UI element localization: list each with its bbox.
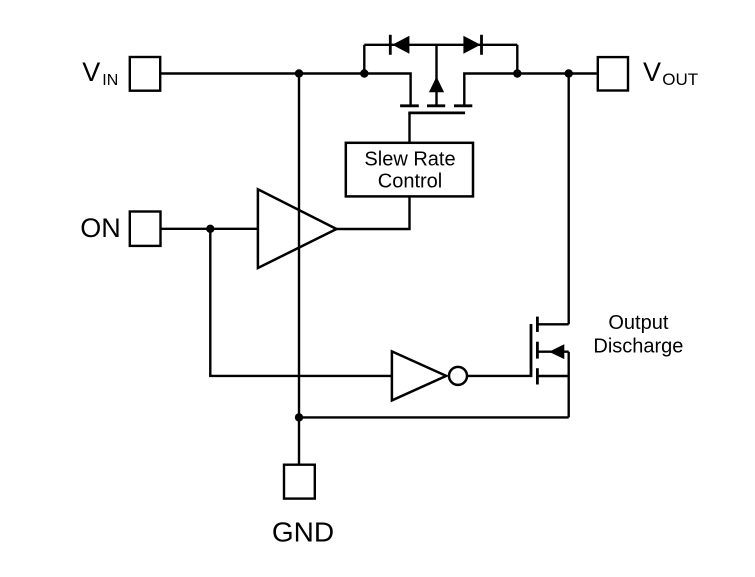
diode D1 (body diode, cathode to VIN side) bbox=[390, 35, 409, 55]
svg-text:GND: GND bbox=[272, 517, 334, 548]
diode D2 (body diode, cathode to VOUT side) bbox=[463, 35, 481, 55]
transistor Q2 output discharge NMOS bbox=[531, 317, 569, 385]
pin box ON bbox=[130, 212, 161, 246]
inverter bubble bbox=[449, 367, 467, 385]
pin box VOUT bbox=[598, 57, 628, 90]
node: junction dot VOUT rail / discharge drain bbox=[565, 69, 573, 77]
wire: Q2 source/body down to bottom rail bbox=[568, 352, 570, 418]
svg-text:Control: Control bbox=[378, 171, 442, 193]
wire: right riser from body-diode rail bbox=[516, 45, 518, 74]
wire: pass FET right plate to VOUT box bbox=[464, 74, 596, 105]
wire: bottom rail bbox=[299, 416, 569, 418]
wire: driver output to slew-rate box bottom bbox=[337, 196, 410, 229]
wire: ON branch down then right to inverter input bbox=[210, 229, 392, 376]
op-amp U1 driver triangle bbox=[258, 189, 337, 268]
op-amp U2 inverter triangle bbox=[392, 351, 446, 400]
substrate arrow of Q1 (points up) bbox=[429, 77, 444, 93]
wire: ON box to driver input bbox=[161, 228, 258, 230]
wire: inverter output to Q2 gate bbox=[467, 375, 531, 377]
svg-text:ON: ON bbox=[80, 213, 121, 243]
wire: VIN rail to pass FET left plate bbox=[161, 74, 411, 105]
wire: left riser to body-diode rail bbox=[363, 45, 365, 74]
wire: Q1 gate down to slew-rate box bbox=[408, 113, 410, 143]
wire: substrate line from diode rail to center plate bbox=[435, 45, 437, 106]
node: junction dot VOUT rail / diode riser bbox=[513, 69, 521, 77]
svg-text:OUT: OUT bbox=[662, 70, 698, 89]
node: junction dot ON wire branch bbox=[206, 225, 214, 233]
svg-text:V: V bbox=[643, 57, 661, 87]
pin box GND bbox=[284, 465, 315, 499]
pin box VIN bbox=[130, 57, 160, 91]
svg-text:Discharge: Discharge bbox=[593, 336, 683, 358]
svg-text:Slew Rate: Slew Rate bbox=[364, 148, 455, 170]
node: junction dot VIN rail / driver branch bbox=[295, 69, 303, 77]
node: junction dot bottom rail / GND bbox=[295, 413, 303, 421]
svg-text:V: V bbox=[82, 57, 100, 87]
wire: vertical from VIN rail through driver down to bottom rail and GND bbox=[298, 74, 300, 464]
svg-text:Output: Output bbox=[608, 312, 668, 334]
wire: Q2 drain up to VOUT rail bbox=[568, 74, 570, 325]
transistor Q1 pass FET (back-to-back MOSFET pair, common gate) bbox=[400, 106, 472, 113]
wire: body-diode top rail bbox=[364, 44, 517, 46]
block: Slew Rate Control box bbox=[346, 143, 473, 197]
node: junction dot VIN rail / diode riser bbox=[360, 69, 368, 77]
svg-text:IN: IN bbox=[102, 72, 118, 89]
